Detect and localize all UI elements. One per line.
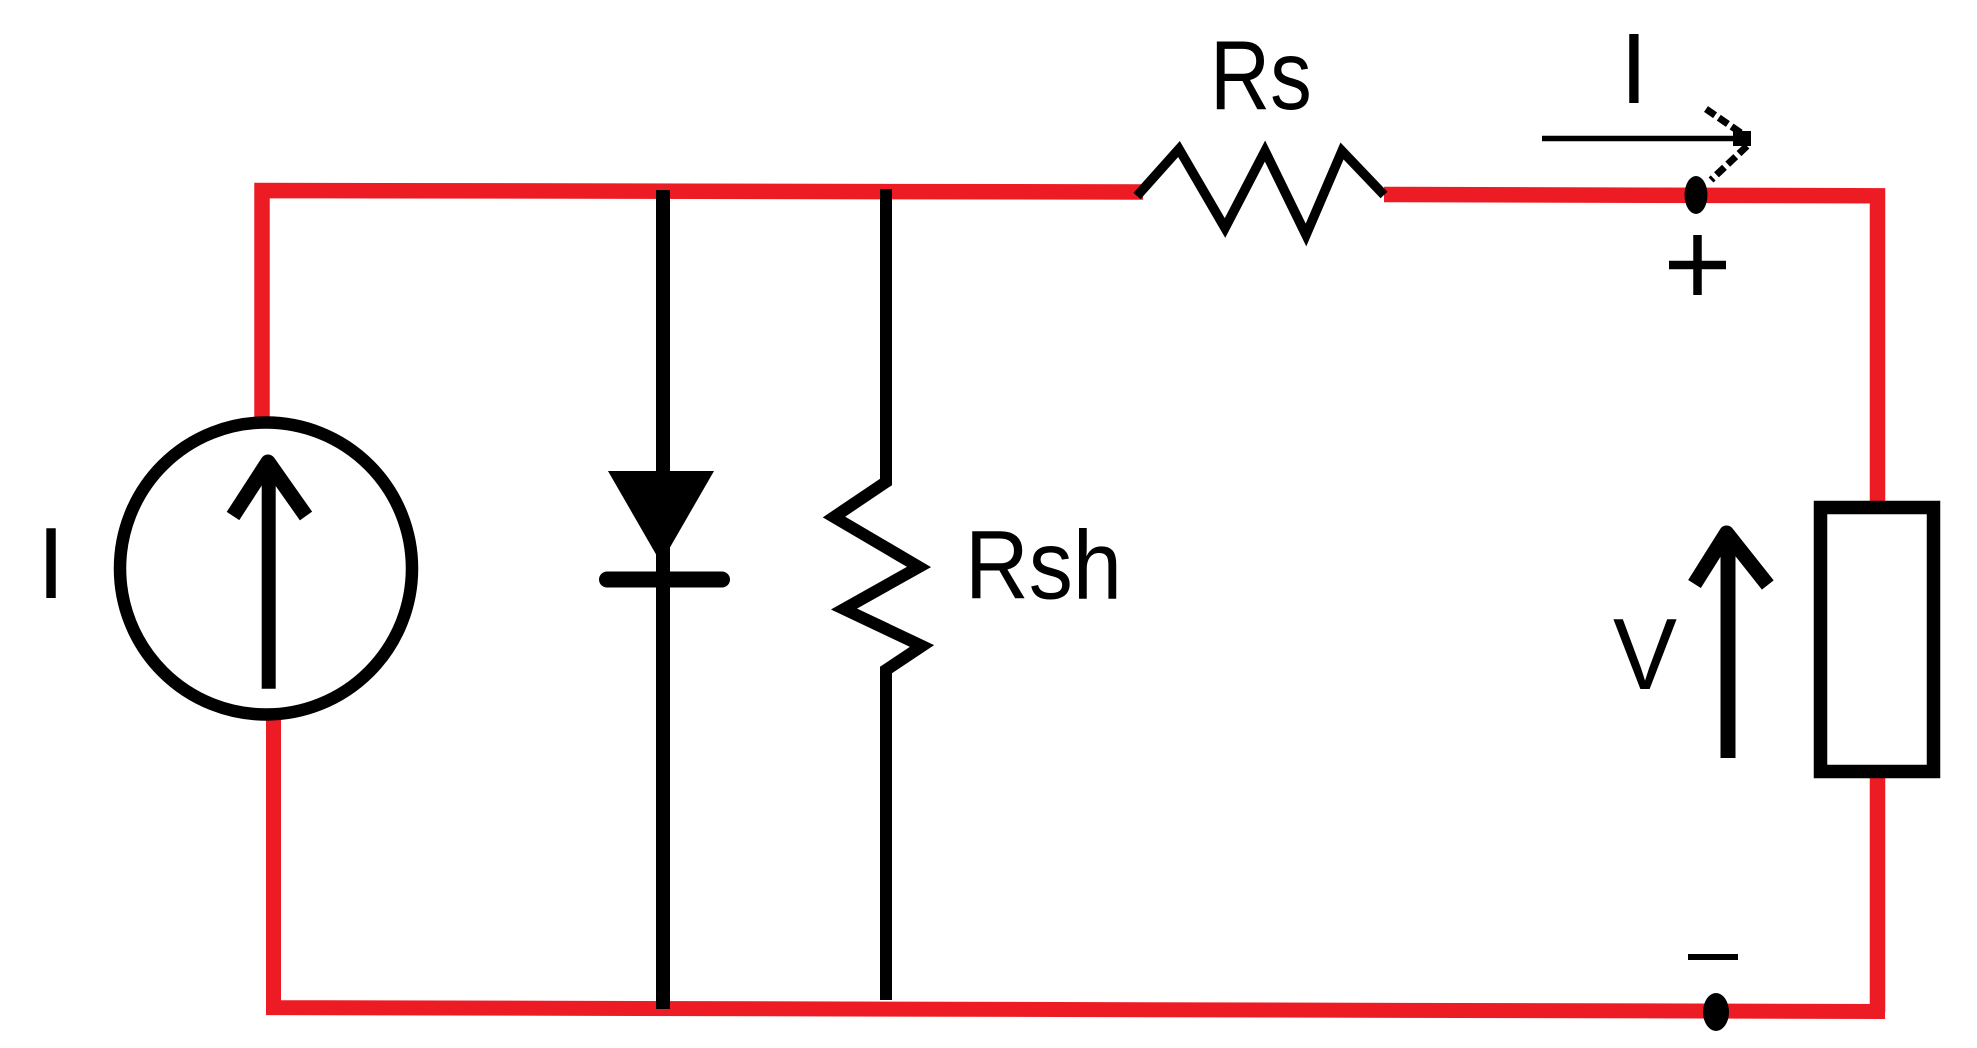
node: top output node dot: [1685, 176, 1708, 214]
svg-text:Rsh: Rsh: [965, 511, 1122, 620]
diode D1 triangle: [608, 471, 714, 563]
load resistor box RL: [1821, 508, 1934, 772]
svg-text:I: I: [37, 508, 65, 620]
plus sign (+ terminal): [1669, 261, 1726, 270]
svg-text:V: V: [1613, 598, 1677, 711]
voltage arrow V head: [1695, 533, 1768, 585]
current arrow I head upper dotted stroke: [1706, 109, 1744, 135]
resistor Rs zigzag: [1137, 149, 1384, 235]
resistor Rsh (vertical line + zigzag): [834, 189, 922, 1000]
wire: top rail right of Rs + right rail red: [1384, 195, 1878, 1013]
current arrow I shaft: [1542, 136, 1745, 142]
node: bottom output node dot: [1703, 993, 1729, 1031]
wire: top-left red wire (top rail left of Rs + left rail upper): [262, 191, 1143, 426]
current source arrowhead: [233, 462, 306, 516]
current arrow I tip blob: [1733, 131, 1751, 146]
svg-text:I: I: [1620, 13, 1648, 125]
wire: left rail lower red segment + bottom rail: [274, 712, 1886, 1012]
current source arrow shaft: [262, 466, 276, 689]
diode D1 line: [656, 190, 670, 1009]
voltage arrow V shaft: [1721, 540, 1736, 758]
diode D1 cathode bar: [607, 572, 722, 588]
minus sign (- terminal): [1688, 954, 1738, 960]
svg-text:Rs: Rs: [1210, 22, 1312, 131]
current arrow I head lower dotted stroke: [1711, 146, 1747, 180]
current source I1 circle: [120, 423, 412, 715]
